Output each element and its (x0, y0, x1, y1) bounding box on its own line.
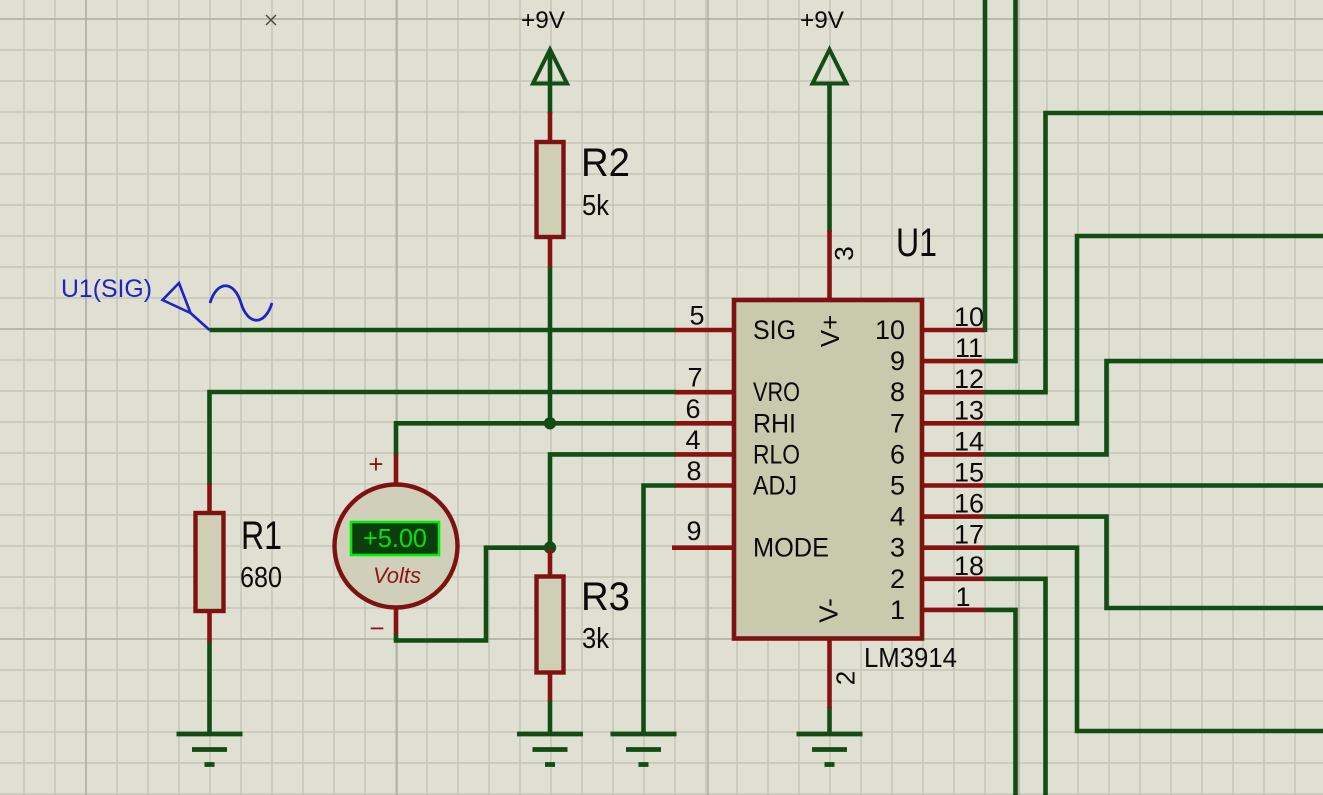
resistor R2 (537, 112, 631, 267)
wire VRO net (R1 top to pin7) (210, 392, 677, 485)
svg-text:13: 13 (954, 395, 984, 425)
generator U1(SIG) (61, 275, 272, 330)
ground under ADJ wire (611, 734, 677, 765)
ground under R1 (177, 734, 243, 765)
svg-text:3: 3 (890, 533, 905, 563)
svg-text:5k: 5k (582, 190, 609, 222)
wire voltmeter minus to junction (396, 548, 552, 641)
junction RHI/R2 (544, 417, 556, 429)
svg-text:2: 2 (831, 671, 861, 685)
U1 right outside pin numbers (954, 302, 984, 612)
svg-text:6: 6 (685, 394, 700, 424)
svg-text:1: 1 (955, 582, 970, 612)
svg-text:12: 12 (954, 364, 984, 394)
wire V- pin to ground (827, 707, 832, 733)
svg-text:R2: R2 (581, 141, 630, 185)
wire pin11 up (984, 0, 1016, 361)
U1 left outside pin numbers (685, 301, 704, 547)
U1 body (734, 300, 922, 639)
wire pin10 up (983, 0, 985, 332)
svg-text:3: 3 (829, 246, 859, 260)
voltmeter (335, 449, 458, 643)
svg-text:6: 6 (890, 439, 905, 469)
svg-text:MODE: MODE (753, 533, 829, 563)
wire pin13 to right edge (984, 236, 1323, 423)
svg-text:2: 2 (890, 564, 905, 594)
svg-text:+9V: +9V (521, 7, 565, 34)
wire pin18 down (984, 579, 1046, 795)
svg-text:14: 14 (954, 426, 984, 456)
svg-text:+5.00: +5.00 (363, 523, 427, 553)
junction RLO/R3/voltmeter (544, 541, 556, 553)
wire SIG net (generator to pin5) (210, 328, 677, 333)
wire R3 bottom to ground (548, 700, 553, 733)
wire R2 bottom to RHI junction (548, 266, 553, 425)
svg-text:3k: 3k (582, 623, 609, 655)
svg-text:8: 8 (686, 456, 701, 486)
svg-text:7: 7 (687, 363, 702, 393)
wire +9V power to R2 (548, 51, 553, 114)
power +9V above R2 (521, 7, 567, 84)
wire R1 bottom to ground (207, 641, 212, 733)
IC U1 LM3914 (672, 221, 984, 708)
svg-text:Volts: Volts (373, 563, 421, 588)
wire ADJ net (pin8 to ground) (644, 486, 677, 734)
svg-text:−: − (369, 613, 384, 643)
U1 right pin stubs 10..18,1 (920, 330, 984, 610)
svg-text:5: 5 (689, 301, 704, 331)
svg-text:5: 5 (890, 471, 905, 501)
power +9V above pin3 (800, 7, 847, 84)
svg-text:680: 680 (240, 562, 282, 594)
origin marker x (266, 15, 276, 25)
wire RHI net (voltmeter+ to pin6) (396, 423, 676, 455)
svg-text:+: + (368, 449, 383, 479)
svg-text:4: 4 (685, 425, 700, 455)
svg-text:9: 9 (686, 516, 701, 546)
resistor R1 (196, 483, 283, 642)
svg-text:18: 18 (954, 551, 984, 581)
wire pin17 to right edge (984, 548, 1323, 731)
svg-text:RHI: RHI (753, 408, 796, 438)
svg-text:LM3914: LM3914 (864, 642, 957, 673)
svg-text:V-: V- (814, 598, 844, 623)
wire RLO net (pin4 down to R3 top junction) (550, 454, 676, 547)
svg-text:VRO: VRO (753, 377, 800, 407)
wire pin1 down (984, 610, 1016, 795)
wire pin15 to right edge (984, 483, 1323, 488)
svg-text:7: 7 (890, 408, 905, 438)
ground under V- pin (797, 734, 863, 765)
U1 inner right numbers 10..1 (875, 315, 905, 625)
svg-text:ADJ: ADJ (753, 471, 797, 501)
wire V+ power to pin3 (827, 82, 832, 232)
svg-text:R1: R1 (241, 514, 282, 558)
svg-text:V+: V+ (815, 315, 845, 348)
wire pin12 to right edge (984, 113, 1323, 392)
svg-text:8: 8 (890, 377, 905, 407)
resistor R3 (537, 549, 631, 702)
U1 bottom pin 2 stub (827, 637, 832, 708)
svg-text:11: 11 (955, 333, 983, 363)
svg-text:10: 10 (875, 315, 905, 345)
svg-text:17: 17 (954, 520, 984, 550)
svg-text:+9V: +9V (800, 7, 844, 34)
wire pin14 to right edge (984, 361, 1323, 454)
svg-text:4: 4 (890, 502, 905, 532)
U1 top pin 3 stub (827, 230, 832, 302)
ground under R3 (517, 734, 583, 765)
svg-text:U1: U1 (896, 221, 937, 265)
svg-text:10: 10 (954, 302, 984, 332)
svg-text:9: 9 (890, 346, 905, 376)
svg-text:U1(SIG): U1(SIG) (61, 275, 152, 303)
svg-text:RLO: RLO (753, 439, 800, 469)
U1 left pin stubs 5,7,6,4,8,9 (672, 330, 736, 548)
wire pin16 to right edge (984, 517, 1323, 608)
svg-text:R3: R3 (581, 575, 630, 619)
svg-text:SIG: SIG (753, 315, 796, 345)
svg-text:1: 1 (890, 595, 905, 625)
svg-text:16: 16 (954, 489, 984, 519)
U1 pin names (753, 315, 829, 563)
svg-text:15: 15 (954, 458, 984, 488)
